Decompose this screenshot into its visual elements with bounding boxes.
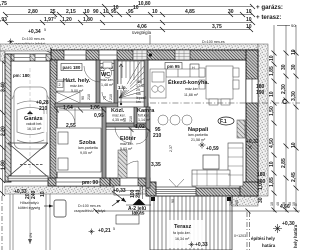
F.1 oval [218, 117, 234, 125]
svg-text:1.lp.: 1.lp. [118, 85, 127, 90]
dining table [199, 66, 239, 105]
svg-text:21,58 m²: 21,58 m² [191, 138, 206, 142]
entry door arc [121, 161, 138, 178]
svg-text:10: 10 [133, 5, 139, 11]
wc toilet [103, 62, 112, 78]
kitchen top cabinets row [166, 69, 204, 77]
svg-text:10: 10 [246, 17, 252, 23]
svg-text:5,63 m²: 5,63 m² [120, 147, 133, 151]
svg-text:75: 75 [103, 96, 107, 100]
uvegtegla pointer dot [149, 53, 152, 56]
corner pillar eloter/nappali [146, 182, 156, 196]
bottom wall nappali part [148, 188, 258, 196]
svg-text:10: 10 [269, 91, 275, 97]
szoba right wall [102, 107, 106, 178]
radiator right wall nappali [237, 120, 245, 138]
svg-text:folt.ker.: folt.ker. [138, 114, 150, 118]
svg-text:210: 210 [87, 94, 91, 100]
three stool circles [158, 115, 192, 125]
door arcs [84, 66, 148, 144]
svg-text:10: 10 [152, 9, 158, 15]
svg-text:pm 95: pm 95 [167, 64, 180, 69]
sliding glass door opening [155, 187, 196, 196]
white halo behind terasz label [168, 220, 204, 248]
sofa L [192, 143, 243, 186]
svg-text:25: 25 [50, 9, 56, 15]
svg-text:10: 10 [84, 9, 90, 15]
svg-text:,93: ,93 [0, 17, 7, 23]
svg-text:máz.ker.: máz.ker. [112, 114, 126, 118]
svg-text:240: 240 [229, 200, 233, 206]
svg-text:lam.parketta: lam.parketta [188, 133, 208, 137]
svg-text:10: 10 [270, 202, 274, 206]
svg-text:9,05 m²: 9,05 m² [80, 151, 93, 155]
svg-text:200: 200 [235, 200, 239, 206]
svg-text:üvegtégla: üvegtégla [132, 30, 152, 35]
svg-text:210: 210 [153, 133, 162, 139]
svg-text:pm: 180: pm: 180 [13, 73, 30, 78]
dash-dot section line [150, 102, 300, 104]
svg-text:km: km [136, 100, 141, 104]
A-2 jelű lakás marker [116, 215, 139, 224]
garage top wall [5, 54, 51, 61]
svg-text:10: 10 [291, 49, 297, 55]
bottom wall szoba part [48, 178, 110, 186]
eloter right wall [146, 107, 150, 188]
kitchen left counter with sink [150, 69, 166, 98]
outer top wall [51, 50, 258, 60]
right outer wall [246, 50, 258, 196]
svg-text:lakás: lakás [132, 211, 145, 217]
svg-text:határa: határa [262, 243, 276, 248]
svg-text:10: 10 [292, 202, 296, 206]
svg-text:10: 10 [246, 9, 252, 15]
dashed property lines [2, 196, 250, 250]
heat pump unit [54, 200, 66, 217]
Garázs [23, 114, 47, 132]
garage left wall [5, 54, 11, 182]
wall wc/stairs divider [114, 60, 118, 104]
svg-text:90: 90 [171, 199, 175, 203]
szoba door arc [59, 108, 75, 124]
tilt V marks [169, 179, 184, 187]
svg-text:1,14 m²: 1,14 m² [138, 118, 151, 122]
svg-text:1,97: 1,97 [44, 17, 54, 23]
svg-text:2: 2 [59, 83, 61, 87]
svg-text:+0,21: +0,21 [98, 228, 111, 234]
svg-text:30: 30 [291, 64, 297, 70]
svg-text:2,15: 2,15 [66, 9, 76, 15]
svg-text:1,85: 1,85 [269, 177, 275, 187]
svg-text:10: 10 [269, 161, 275, 167]
svg-text:4%: 4% [29, 232, 33, 238]
svg-text:+0,59: +0,59 [206, 146, 219, 152]
gravel band around building [0, 44, 268, 206]
svg-text:lam.parketta: lam.parketta [78, 146, 98, 150]
svg-text:pm: 90: pm: 90 [82, 180, 98, 186]
svg-text:2,55: 2,55 [66, 123, 76, 129]
svg-text:2,30: 2,30 [281, 84, 287, 94]
svg-text:40: 40 [276, 202, 280, 206]
svg-text:5: 5 [54, 16, 56, 20]
glass block window [133, 50, 147, 60]
svg-text:D=100 mm-es: D=100 mm-es [78, 204, 101, 208]
right wall window [246, 79, 258, 103]
svg-text:30: 30 [281, 64, 287, 70]
svg-text:0,95: 0,95 [94, 113, 104, 119]
svg-text:Terasz: Terasz [174, 224, 192, 230]
svg-text:1,48 m²: 1,48 m² [101, 83, 114, 87]
svg-text:4,85: 4,85 [185, 9, 195, 15]
svg-text:,75: ,75 [0, 1, 7, 7]
dim pairs under right lines [171, 199, 296, 206]
svg-text:1,50: 1,50 [269, 106, 275, 116]
downpipe arrow at wall junction [50, 47, 58, 57]
svg-text:+ terasz:: + terasz: [256, 14, 281, 21]
svg-text:máz.ker.: máz.ker. [100, 78, 114, 82]
svg-text:190: 190 [256, 90, 265, 96]
svg-text:1,80: 1,80 [83, 17, 93, 23]
svg-text:210: 210 [39, 106, 48, 112]
svg-text:1,85: 1,85 [269, 66, 275, 76]
wall stairs right [144, 60, 148, 107]
svg-text:4,50: 4,50 [269, 138, 275, 148]
misc small dims inside [25, 105, 162, 199]
svg-text:2,85: 2,85 [281, 158, 287, 168]
svg-text:kültéri egység: kültéri egység [18, 206, 40, 210]
washer/dryer in hazt [56, 80, 80, 103]
svg-text:Hőszivattyú: Hőszivattyú [20, 201, 39, 205]
garage door cross [8, 143, 48, 181]
bottom wall entry part [110, 178, 150, 186]
svg-text:1,20: 1,20 [62, 17, 72, 23]
terrace posts [151, 197, 155, 201]
svg-text:parc 180: parc 180 [63, 65, 81, 70]
garage/house shared wall [50, 60, 57, 182]
svg-text:30: 30 [258, 197, 264, 203]
svg-text:10: 10 [282, 202, 286, 206]
svg-text:10: 10 [113, 5, 119, 11]
dim line 1,02 eloter [106, 129, 150, 131]
wall kozl/kamra horizontal [104, 123, 148, 127]
svg-text:C: C [282, 97, 288, 106]
svg-text:hely határa: hely határa [293, 224, 298, 248]
svg-text:máz.ker.: máz.ker. [120, 142, 134, 146]
bed in szoba [56, 128, 101, 172]
svg-text:16,10 m²: 16,10 m² [27, 127, 42, 131]
svg-text:vakolt bet.: vakolt bet. [26, 122, 42, 126]
dim 4,66 [96, 210, 300, 212]
svg-text:95: 95 [128, 9, 134, 15]
svg-text:210: 210 [129, 116, 133, 122]
svg-text:+ garázs:: + garázs: [256, 4, 283, 11]
svg-text:F.1: F.1 [220, 119, 227, 125]
svg-text:10: 10 [269, 55, 275, 61]
svg-text:10: 10 [246, 24, 252, 30]
svg-text:2,45: 2,45 [291, 172, 297, 182]
wall under hazt/wc horizontal [55, 103, 118, 107]
corner bottom right [240, 182, 258, 196]
svg-text:11,88 m²: 11,88 m² [184, 93, 199, 97]
small rotated window size labels above wall [65, 45, 167, 49]
svg-text:5,00 m²: 5,00 m² [71, 89, 84, 93]
svg-text:fa ipdo.ker.: fa ipdo.ker. [173, 231, 191, 235]
garage car [12, 87, 49, 149]
svg-text:máz.ker.: máz.ker. [70, 84, 84, 88]
dim line 1,64/1,06 [56, 109, 104, 111]
svg-text:5: 5 [113, 227, 115, 231]
dim line row A [0, 7, 252, 30]
dashed guide through garage [29, 68, 31, 176]
tick marks row A [3, 4, 255, 32]
svg-text:építési hely: építési hely [251, 236, 275, 241]
svg-text:so: so [291, 23, 296, 28]
stair note text block [136, 80, 146, 104]
svg-text:3,75: 3,75 [212, 24, 222, 30]
wall hazt/wc divider [96, 60, 100, 104]
svg-text:95: 95 [123, 118, 127, 122]
svg-text:1,02: 1,02 [135, 124, 145, 130]
svg-text:90: 90 [81, 96, 85, 100]
svg-text:2,37: 2,37 [169, 145, 173, 152]
labels on top wall interior [61, 64, 82, 71]
svg-text:200: 200 [257, 179, 266, 185]
svg-text:10: 10 [291, 142, 297, 148]
window top 2 [99, 50, 117, 60]
svg-text:30: 30 [228, 9, 234, 15]
svg-text:10,80: 10,80 [138, 1, 151, 7]
svg-text:90: 90 [93, 9, 99, 15]
entry step [114, 186, 140, 195]
svg-text:16,34 m²: 16,34 m² [175, 237, 190, 241]
svg-text:10: 10 [40, 191, 46, 197]
svg-text:1,06: 1,06 [90, 105, 100, 111]
svg-text:Étkező-konyha.: Étkező-konyha. [168, 78, 209, 86]
radiator eloter [118, 150, 127, 178]
svg-text:240: 240 [136, 189, 142, 198]
svg-text:D=100 mm-es: D=100 mm-es [22, 37, 45, 41]
svg-text:máz.ker.: máz.ker. [185, 87, 199, 91]
window top 1 [64, 50, 86, 60]
svg-text:210: 210 [109, 94, 113, 100]
svg-text:1,64: 1,64 [63, 105, 73, 111]
svg-text:10: 10 [103, 9, 109, 15]
svg-text:+0,34: +0,34 [28, 29, 41, 35]
svg-text:180: 180 [257, 172, 266, 178]
svg-text:3,30: 3,30 [291, 91, 297, 101]
rug [203, 155, 219, 169]
glass block window 2 [175, 50, 190, 60]
svg-text:5: 5 [44, 28, 46, 32]
svg-text:240: 240 [31, 190, 37, 199]
svg-text:0+1203: 0+1203 [234, 234, 246, 238]
svg-text:D=100 mm-es: D=100 mm-es [202, 40, 225, 44]
svg-text:3,35: 3,35 [151, 162, 161, 168]
svg-text:+0,33: +0,33 [246, 139, 259, 145]
svg-text:+0,33: +0,33 [195, 242, 208, 248]
kamra divider vertical [134, 107, 137, 126]
svg-text:2,80: 2,80 [28, 9, 38, 15]
driveway slope arrow [29, 195, 31, 244]
